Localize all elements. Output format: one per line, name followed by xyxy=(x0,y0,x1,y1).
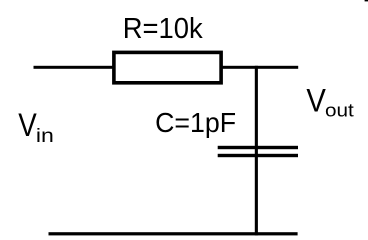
svg-text:C=1pF: C=1pF xyxy=(155,107,236,138)
svg-text:out: out xyxy=(325,101,354,121)
resistor R=10k body xyxy=(114,52,221,82)
wire input segment (Vin to resistor) xyxy=(34,66,114,69)
wire resistor to output node xyxy=(222,66,298,69)
corner artifact mark xyxy=(365,0,368,1)
svg-text:R=10k: R=10k xyxy=(123,13,204,45)
ground rail wire (bottom) xyxy=(49,232,298,235)
svg-text:in: in xyxy=(36,126,54,147)
svg-text:V: V xyxy=(18,107,37,143)
capacitor C1 top plate xyxy=(218,146,298,149)
wire node through capacitor to ground rail xyxy=(255,66,258,236)
capacitor C1 bottom plate xyxy=(218,154,298,157)
svg-text:V: V xyxy=(306,83,326,119)
